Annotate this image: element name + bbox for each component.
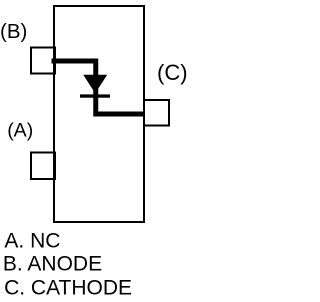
pin 2 pad (B) [31, 48, 55, 74]
svg-text:(B): (B) [0, 20, 27, 43]
pin 3 pad (C) [144, 100, 169, 126]
wire anode from pin B [52, 61, 146, 114]
svg-text:B. ANODE: B. ANODE [3, 253, 102, 276]
svg-text:C. CATHODE: C. CATHODE [4, 277, 132, 300]
svg-text:A. NC: A. NC [4, 230, 60, 253]
pin 1 pad (A) [31, 153, 55, 180]
package body outline [54, 6, 144, 222]
svg-text:(A): (A) [7, 120, 33, 142]
diode D1 anode triangle [83, 75, 107, 94]
svg-text:(C): (C) [157, 60, 188, 85]
diode D1 cathode bar [80, 94, 110, 97]
